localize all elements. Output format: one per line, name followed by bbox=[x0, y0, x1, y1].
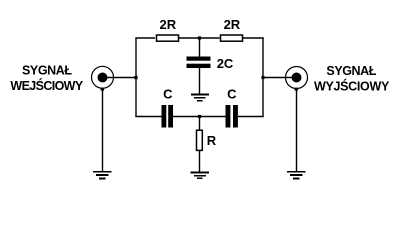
svg-text:C: C bbox=[163, 87, 173, 102]
svg-text:C: C bbox=[227, 87, 237, 102]
svg-text:WYJŚCIOWY: WYJŚCIOWY bbox=[314, 78, 390, 93]
svg-text:2R: 2R bbox=[159, 17, 176, 32]
svg-text:R: R bbox=[207, 133, 217, 148]
svg-text:2C: 2C bbox=[217, 56, 234, 71]
svg-text:SYGNAŁ: SYGNAŁ bbox=[22, 64, 72, 78]
svg-text:WEJŚCIOWY: WEJŚCIOWY bbox=[10, 78, 83, 93]
svg-text:SYGNAŁ: SYGNAŁ bbox=[326, 64, 376, 78]
svg-text:2R: 2R bbox=[224, 17, 241, 32]
